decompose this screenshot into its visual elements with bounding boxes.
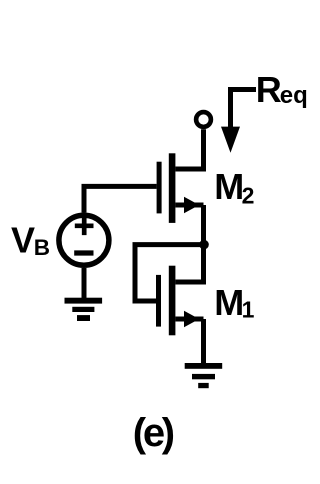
svg-text:M: M [214, 282, 244, 323]
ground VB [65, 298, 103, 321]
label M2 [214, 166, 254, 208]
wire VB to M2 gate [84, 186, 157, 212]
svg-text:(e): (e) [133, 411, 175, 455]
arrowhead Req direction [221, 127, 240, 153]
wire terminal to M2 drain [175, 129, 203, 169]
svg-text:2: 2 [242, 182, 255, 208]
caption (e) [133, 411, 175, 455]
node A junction dot [199, 240, 209, 250]
svg-text:eq: eq [280, 82, 308, 109]
voltage source VB [59, 215, 109, 265]
wire M1 drain to node A [175, 245, 203, 282]
wire node A to M1 gate [135, 245, 204, 301]
transistor M2 [157, 153, 204, 223]
terminal open circle [196, 112, 211, 127]
wire Req lead [231, 90, 257, 136]
svg-text:V: V [11, 220, 35, 261]
label VB [11, 220, 50, 261]
wire M2 source to node A [201, 205, 206, 245]
ground M1 [185, 363, 223, 388]
label M1 [214, 282, 254, 323]
svg-text:B: B [34, 235, 50, 260]
label Req [256, 69, 308, 110]
svg-text:R: R [256, 69, 282, 110]
svg-text:M: M [214, 166, 244, 207]
wire VB to ground [82, 268, 87, 299]
svg-text:1: 1 [242, 296, 255, 322]
wire M1 source to ground [201, 319, 206, 364]
transistor M1 [156, 266, 204, 336]
